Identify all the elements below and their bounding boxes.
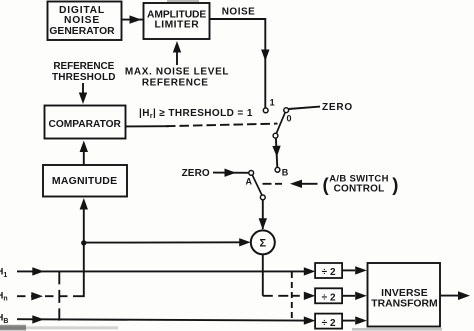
wire: dashed vertical distribution line xyxy=(291,272,293,320)
svg-text:÷ 2: ÷ 2 xyxy=(322,318,336,329)
scan artifact: grey streak under inverse transform box xyxy=(352,328,442,331)
wire: inverse transform output arrow xyxy=(440,291,470,300)
svg-text:THRESHOLD: THRESHOLD xyxy=(52,72,116,83)
scan artifact: dark smudge bottom left corner xyxy=(0,325,26,331)
svg-text:): ) xyxy=(392,174,398,195)
wire: lower pole down into summer with arrow xyxy=(259,200,267,230)
box: comparator xyxy=(45,106,126,139)
svg-text:GENERATOR: GENERATOR xyxy=(49,26,115,37)
svg-text:0: 0 xyxy=(287,114,292,124)
svg-text:TRANSFORM: TRANSFORM xyxy=(371,298,437,309)
scan artifact: grey line top xyxy=(167,0,199,2)
wire: HB line with arrows into divider 3 xyxy=(17,315,315,325)
svg-text:A: A xyxy=(246,177,253,187)
label: ZERO (left) with arrow to terminal A xyxy=(182,168,249,179)
box: divider 2 (divide by 2) xyxy=(315,288,342,303)
svg-text:ZERO: ZERO xyxy=(322,102,353,113)
node: junction dot feeding summer xyxy=(81,240,86,245)
wire: dashed arrow into divider 2 xyxy=(292,292,316,300)
switch arm: upper switch pole to terminal 0 xyxy=(273,112,285,138)
wire: horizontal from junction to summer with arrow xyxy=(84,238,251,246)
svg-text:|Hr| ≥ THRESHOLD = 1: |Hr| ≥ THRESHOLD = 1 xyxy=(139,108,253,120)
svg-text:CONTROL: CONTROL xyxy=(334,184,385,195)
scan artifact: grey streak bottom left xyxy=(0,326,118,329)
wire: dashed vertical tying H lines at left xyxy=(58,271,60,320)
summer: sigma circle xyxy=(251,230,275,254)
wire: reference threshold arrow into comparator xyxy=(79,83,87,104)
wire: vertical from Hn line up into magnitude with arrow, corner at Hn xyxy=(74,198,88,296)
box: divider 3 (divide by 2) xyxy=(315,314,342,329)
svg-text:REFERENCE: REFERENCE xyxy=(142,78,209,89)
wire: H1 line with arrows into divider 1 xyxy=(17,267,315,275)
wire: comparator output, solid then dashed, to upper switch xyxy=(126,124,278,127)
switch terminal A xyxy=(246,171,254,187)
wire: divider 1 to inverse transform arrow xyxy=(342,266,367,274)
svg-text:1: 1 xyxy=(270,98,275,108)
svg-text:INVERSE: INVERSE xyxy=(381,288,428,299)
svg-text:MAGNITUDE: MAGNITUDE xyxy=(52,175,117,187)
svg-text:ZERO: ZERO xyxy=(182,168,210,179)
box: divider 1 (divide by 2) xyxy=(315,263,342,278)
wire: A/B switch control dashed arrow xyxy=(263,180,318,188)
label: reference threshold xyxy=(52,61,116,83)
wire: divider 3 to inverse transform arrow xyxy=(342,316,367,324)
svg-text:÷ 2: ÷ 2 xyxy=(322,293,336,304)
wire: generator to limiter with arrow xyxy=(122,15,144,23)
svg-text:NOISE: NOISE xyxy=(64,15,100,26)
wire: noise line from limiter down to switch terminal 1 xyxy=(210,19,270,108)
svg-text:÷ 2: ÷ 2 xyxy=(322,267,336,278)
svg-text:Σ: Σ xyxy=(259,238,266,250)
wire: Hn dashed line with arrow xyxy=(17,292,74,300)
svg-text:MAX. NOISE LEVEL: MAX. NOISE LEVEL xyxy=(125,67,229,78)
switch terminal 1 xyxy=(263,98,274,113)
svg-text:NOISE: NOISE xyxy=(222,6,256,17)
box: magnitude xyxy=(43,165,127,197)
label: max noise level reference xyxy=(125,67,229,89)
wire: terminal 0 to ZERO label xyxy=(289,107,320,109)
box: digital noise generator xyxy=(48,2,122,41)
wire: magnitude up to comparator with arrow xyxy=(80,141,88,166)
wire: max noise reference arrow into limiter xyxy=(173,41,181,65)
switch terminal 0 xyxy=(284,108,292,124)
wire: upper pole down to terminal B with arrow xyxy=(272,138,289,177)
svg-text:B: B xyxy=(282,168,289,178)
svg-text:COMPARATOR: COMPARATOR xyxy=(48,119,121,130)
switch arm: lower switch pole to terminal A xyxy=(252,175,265,200)
svg-text:REFERENCE: REFERENCE xyxy=(53,61,114,72)
wire: divider 2 to inverse transform arrow xyxy=(342,292,367,300)
box: amplitude limiter xyxy=(144,3,210,39)
label: (A/B SWITCH CONTROL) xyxy=(323,174,399,195)
box: inverse transform xyxy=(368,263,441,327)
wire: summer output down then dashed right xyxy=(263,254,292,295)
svg-text:LIMITER: LIMITER xyxy=(154,20,199,31)
